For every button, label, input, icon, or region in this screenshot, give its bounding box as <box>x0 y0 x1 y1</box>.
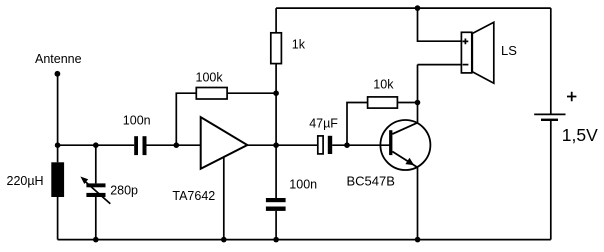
wire amp output row <box>247 144 317 146</box>
wire top rail <box>276 7 551 9</box>
node 280p/rail <box>93 237 99 243</box>
svg-text:220µH: 220µH <box>7 174 44 188</box>
wire 280p bottom <box>95 197 97 240</box>
svg-text:280p: 280p <box>110 184 138 198</box>
wire emitter down <box>417 167 419 240</box>
wire input row left <box>58 144 135 146</box>
svg-text:47µF: 47µF <box>309 116 338 130</box>
capacitor C 100n bottom <box>266 198 286 202</box>
wire battery top <box>550 8 552 114</box>
wire 100k left <box>176 93 196 145</box>
inductor L 220µH body <box>51 162 64 197</box>
transistor emitter arrowhead <box>405 158 414 166</box>
wire 1k top <box>275 8 277 33</box>
wire bottom cap to rail <box>275 211 277 240</box>
resistor R 100k <box>196 88 227 100</box>
wire base row <box>332 144 390 146</box>
wire input row right <box>147 144 201 146</box>
wire 10k right leg <box>397 102 417 104</box>
capacitor C 47µF minus plate <box>328 136 332 154</box>
node 1k/100k junction <box>273 90 279 96</box>
node amp output junction <box>273 142 279 148</box>
transistor collector stroke <box>392 123 417 134</box>
wire speaker plus feed <box>418 8 462 41</box>
wire inductor bottom <box>57 197 59 240</box>
wire 100k right <box>227 92 276 94</box>
transistor emitter stroke <box>392 152 416 167</box>
svg-text:LS: LS <box>501 43 517 58</box>
wire 10k left leg <box>347 103 368 146</box>
wire collector to speaker minus <box>418 64 462 66</box>
wire antenna <box>57 74 59 145</box>
svg-text:100n: 100n <box>289 177 317 191</box>
node 280p branch <box>93 142 99 148</box>
transistor base bar <box>389 130 392 155</box>
speaker minus mark <box>463 64 469 66</box>
node emitter/rail <box>415 237 421 243</box>
svg-text:BC547B: BC547B <box>347 174 395 189</box>
capacitor 280p plates <box>86 183 105 187</box>
resistor R 1k <box>271 33 282 64</box>
svg-text:1k: 1k <box>292 37 306 51</box>
battery BT1 positive plate <box>534 113 565 115</box>
speaker LS box <box>461 32 471 73</box>
capacitor 280p : wire top <box>95 145 97 183</box>
svg-text:10k: 10k <box>373 77 394 91</box>
wire to bottom cap <box>275 145 277 198</box>
svg-text:100k: 100k <box>196 71 224 85</box>
battery plus mark <box>567 92 576 101</box>
node 100k/input junction <box>174 142 180 148</box>
speaker cone <box>472 22 494 83</box>
node base/10k junction <box>344 142 350 148</box>
node amp ground/rail <box>221 237 227 243</box>
wire collector up <box>417 65 419 123</box>
capacitor 280p trimmer arrow <box>84 180 111 204</box>
svg-text:TA7642: TA7642 <box>172 189 215 203</box>
node top rail / speaker junction <box>415 5 421 11</box>
svg-text:Antenne: Antenne <box>35 52 82 66</box>
node bottom cap/rail <box>273 237 279 243</box>
wire amp ground pin <box>223 157 225 240</box>
battery BT1 negative plate <box>541 119 558 121</box>
node 10k/collector junction <box>415 100 421 106</box>
wire 1k bottom <box>275 64 277 94</box>
capacitor C 100n input <box>134 136 138 155</box>
wire output column <box>275 93 277 145</box>
node antenna/wire junction <box>55 142 61 148</box>
capacitor C 47µF plus plate <box>318 136 323 154</box>
wire bottom rail <box>58 239 551 241</box>
resistor R 10k <box>368 97 398 108</box>
transistor Q BC547B body <box>380 120 430 170</box>
wire battery bottom <box>550 121 552 240</box>
op-amp U TA7642 <box>201 117 248 169</box>
svg-text:100n: 100n <box>123 114 151 128</box>
inductor L 220µH : wire top <box>57 145 59 162</box>
speaker plus mark <box>463 39 469 45</box>
svg-text:1,5V: 1,5V <box>562 125 598 145</box>
antenna terminal dot <box>55 71 61 77</box>
